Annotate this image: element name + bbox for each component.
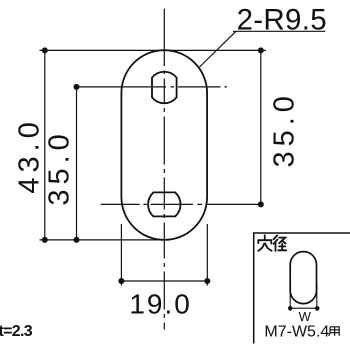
bottom hole horizontal centerline [101,203,261,205]
bottom extension line [40,239,159,241]
dot 43.0 top [42,47,48,53]
dot 19.0 right [204,278,210,284]
svg-text:t=2.3: t=2.3 [0,323,33,340]
legend obround (hole shape) [290,252,316,304]
W dot right [315,306,319,310]
dot 43.0 bottom [42,237,48,243]
top hole horizontal centerline [77,86,228,88]
dot 35.0 left bottom [74,237,80,243]
dimension line 35.0 left [76,87,78,240]
extension line 19.0 left [120,224,122,286]
dot 35.0 right bottom [258,201,264,207]
W extension line left [289,285,291,311]
vertical centerline [163,9,165,330]
dot 19.0 left [118,278,124,284]
top hole (square-neck bolt hole, vertical) [152,72,177,103]
W extension line right [316,285,318,311]
kanji 用 (for) drawn as strokes [328,327,339,336]
svg-text:M7-W5.4: M7-W5.4 [264,323,329,340]
svg-text:W: W [299,309,312,324]
part outline (stadium plate) [121,50,207,240]
extension line 19.0 right [206,224,208,286]
W dot left [288,306,292,310]
W dimension line [290,307,316,309]
hole-detail box border [254,233,350,344]
svg-text:35.0: 35.0 [44,129,76,205]
top extension line [40,49,267,51]
dimension line 19.0 [121,280,207,282]
svg-text:35.0: 35.0 [269,91,301,167]
leader 2-R9.5 underline [233,30,325,32]
dot 35.0 right top [258,47,264,53]
dimension line 35.0 right [260,50,262,204]
svg-text:2-R9.5: 2-R9.5 [237,4,327,37]
dot 35.0 left top [74,84,80,90]
dimension line 43.0 [44,50,46,240]
bottom hole (square-neck bolt hole, horizontal) [148,192,180,216]
svg-text:43.0: 43.0 [13,117,45,193]
label 穴径 (hole diameter) drawn as strokes [258,235,286,251]
leader 2-R9.5 diagonal [200,31,237,67]
svg-text:19.0: 19.0 [129,289,192,320]
